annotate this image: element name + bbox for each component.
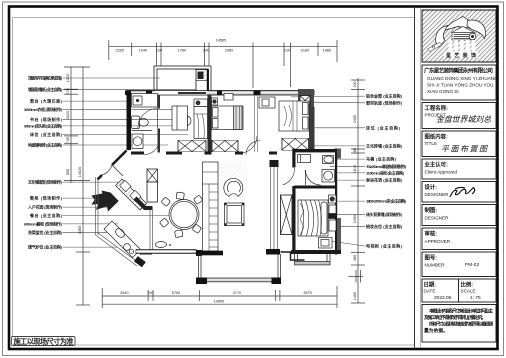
tall X cabinet — [281, 195, 293, 235]
svg-text:270: 270 — [66, 88, 70, 94]
bay hatched duct box — [196, 70, 209, 93]
svg-text:文化墙造型 (现场制作): 文化墙造型 (现场制作) — [28, 179, 63, 185]
svg-text:业主认可:: 业主认可: — [425, 161, 449, 169]
svg-text:洗菜盆位 (业主自购): 洗菜盆位 (业主自购) — [28, 229, 63, 235]
svg-text:5750: 5750 — [172, 291, 180, 295]
master bed — [298, 195, 337, 248]
sofa band — [203, 162, 219, 251]
svg-text:3365: 3365 — [78, 226, 82, 234]
dining table — [159, 192, 202, 237]
svg-text:14565: 14565 — [214, 299, 225, 303]
svg-text:广东星艺装饰集团永州有限公司: 广东星艺装饰集团永州有限公司 — [424, 67, 493, 75]
svg-text:1040: 1040 — [139, 49, 147, 53]
svg-text:GUANG DONG XING YI ZHUANG: GUANG DONG XING YI ZHUANG — [427, 76, 498, 81]
master wing west wall + door — [292, 149, 295, 196]
svg-text:餐台 (业主自购): 餐台 (业主自购) — [29, 212, 63, 218]
title block left boundary — [414, 8, 416, 348]
svg-text:马桶 (业主自购): 马桶 (业主自购) — [366, 156, 397, 162]
rug light hatch in hall — [203, 162, 247, 196]
bathroom1 — [132, 94, 158, 149]
logo box — [422, 10, 496, 62]
svg-text:2450: 2450 — [353, 215, 357, 223]
svg-text:1100mm浴柜 (业主自购): 1100mm浴柜 (业主自购) — [366, 169, 405, 175]
svg-text:图纸内容:: 图纸内容: — [425, 133, 449, 141]
master bay window — [295, 254, 331, 265]
client box — [422, 159, 496, 179]
svg-text:地面铺地砖 (业主自购): 地面铺地砖 (业主自购) — [28, 142, 63, 148]
master bottom wall — [291, 250, 341, 254]
svg-text:制图:: 制图: — [425, 206, 438, 214]
bed1/bed2 divider wall — [208, 95, 212, 140]
svg-text:1800x2000mm床 (业主自购): 1800x2000mm床 (业主自购) — [366, 198, 407, 204]
svg-text:TITLE: TITLE — [425, 141, 438, 146]
svg-text:2960: 2960 — [225, 49, 233, 53]
svg-text:量为依据。: 量为依据。 — [424, 327, 448, 334]
svg-text:入户花园 (现场制作): 入户花园 (现场制作) — [28, 204, 63, 210]
svg-text:2450: 2450 — [353, 115, 357, 123]
kitchen window junction block — [140, 250, 152, 255]
svg-text:DATE: DATE — [424, 289, 436, 294]
svg-text:窗台 (大理石面): 窗台 (大理石面) — [30, 98, 63, 104]
svg-text:及施工单位不得修改,不得转让,仿冒必究。: 及施工单位不得修改,不得转让,仿冒必究。 — [424, 314, 486, 321]
svg-text:本图设计内容及尺寸未经设计单位许可,业主: 本图设计内容及尺寸未经设计单位许可,业主 — [429, 308, 493, 315]
left exterior wall — [127, 92, 132, 150]
drawer box — [422, 205, 496, 226]
entry diagonal wall D1 + door — [98, 151, 127, 180]
svg-text:240: 240 — [147, 291, 153, 295]
date / scale box — [422, 279, 496, 302]
svg-text:所有尺寸以现场实际放线为准,不得以图纸测: 所有尺寸以现场实际放线为准,不得以图纸测 — [429, 321, 493, 328]
title box — [422, 131, 496, 157]
svg-text:审核:: 审核: — [425, 230, 438, 238]
living west window band — [271, 167, 278, 249]
fridge w/ X — [147, 169, 158, 202]
step box right of bay — [281, 252, 305, 260]
small dim right bottom — [349, 270, 364, 283]
bed2/bed3 light wall — [255, 95, 258, 152]
kitchen east wall thin — [150, 210, 153, 251]
top dimension line — [109, 40, 337, 88]
bed3 (horizontal, headboard right) — [279, 101, 309, 131]
svg-text:书台 (现场制作): 书台 (现场制作) — [30, 116, 63, 122]
top wall band with window — [125, 91, 314, 96]
svg-text:14565: 14565 — [216, 39, 227, 43]
svg-text:700x700mm淋浴房 (现场制作): 700x700mm淋浴房 (现场制作) — [366, 163, 407, 169]
number box — [422, 252, 496, 277]
svg-text:14020: 14020 — [78, 167, 82, 178]
wall box AC — [224, 94, 233, 101]
svg-text:顶面吊平顶 (原白乳胶漆): 顶面吊平顶 (原白乳胶漆) — [28, 75, 63, 81]
bottom wall window left — [136, 242, 223, 257]
master bedroom right wall — [335, 149, 337, 255]
svg-text:电视柜 (业主自购): 电视柜 (业主自购) — [366, 243, 403, 249]
svg-text:淋浴花洒 (业主自购): 淋浴花洒 (业主自购) — [366, 177, 403, 183]
square table — [225, 203, 245, 226]
svg-text:480: 480 — [353, 255, 357, 261]
svg-text:555: 555 — [66, 169, 70, 175]
svg-text:Client Approved: Client Approved — [425, 170, 458, 175]
corner block w/ X column — [298, 89, 314, 107]
svg-text:梳妆台位 (业主自购): 梳妆台位 (业主自购) — [365, 223, 403, 229]
svg-text:900mm床头柜 (业主自购): 900mm床头柜 (业主自购) — [24, 122, 63, 128]
round fan chair — [224, 178, 243, 196]
svg-text:床位 (业主自购): 床位 (业主自购) — [30, 131, 63, 137]
svg-text:墙面贴墙纸 (业主自购): 墙面贴墙纸 (业主自购) — [28, 86, 63, 92]
svg-text:鞋柜 (现场制作): 鞋柜 (现场制作) — [30, 195, 63, 201]
svg-text:180: 180 — [353, 148, 357, 154]
svg-text:床位 (业主自购): 床位 (业主自购) — [366, 124, 401, 130]
left vertical dimension lines — [64, 67, 90, 305]
right wing exterior wall upper — [309, 107, 315, 152]
svg-text:2940: 2940 — [120, 291, 128, 295]
svg-text:窗帘轨道 (现场制作): 窗帘轨道 (现场制作) — [366, 99, 403, 105]
inner thin frame — [13, 18, 415, 346]
approver box — [422, 228, 496, 250]
company box — [422, 65, 498, 100]
svg-text:NUMBER: NUMBER — [425, 263, 446, 268]
svg-text:4770: 4770 — [233, 291, 241, 295]
project box — [422, 103, 496, 129]
svg-text:文化砖墙 (业主自购): 文化砖墙 (业主自购) — [366, 142, 403, 148]
svg-text:DESIGNER: DESIGNER — [425, 192, 450, 197]
svg-text:APPROVER: APPROVER — [425, 239, 451, 244]
svg-text:2022.06: 2022.06 — [434, 295, 452, 301]
bottom bay window — [199, 254, 281, 282]
bathroom2 — [295, 149, 338, 189]
svg-text:1: 75: 1: 75 — [470, 295, 481, 301]
svg-text:3000mm衣柜 (现场制作): 3000mm衣柜 (现场制作) — [24, 106, 63, 112]
bed2 (horizontal, headboard left) — [212, 98, 244, 130]
svg-text:600mm橱柜 (现场制作): 600mm橱柜 (现场制作) — [24, 220, 63, 226]
kitchen SW diagonal thin — [96, 233, 140, 266]
bed1 (vertical, headboard top) — [194, 99, 208, 139]
svg-text:煤气炉位 (业主自购): 煤气炉位 (业主自购) — [28, 244, 63, 250]
svg-text:图号:: 图号: — [425, 254, 438, 262]
left leader lines — [63, 78, 197, 247]
svg-text:SCALE: SCALE — [461, 289, 476, 294]
kitchen black corner wall — [134, 197, 153, 211]
kitchen lower counter — [104, 221, 141, 258]
svg-text:日期:: 日期: — [424, 281, 437, 289]
svg-text:XIAN GONG SI: XIAN GONG SI — [427, 89, 459, 94]
svg-text:PM-02: PM-02 — [465, 262, 479, 268]
kitchen left thin wall — [96, 177, 99, 235]
bedroom south wall with door openings — [131, 152, 277, 155]
svg-text:工程名称:: 工程名称: — [425, 104, 449, 112]
svg-text:1480: 1480 — [323, 49, 331, 53]
svg-text:DESIGNER: DESIGNER — [425, 216, 450, 221]
svg-text:745: 745 — [66, 137, 70, 143]
kitchen upper counter (shoe cabinet) — [116, 179, 147, 210]
svg-text:设计:: 设计: — [425, 183, 438, 191]
bedroom3 table — [259, 97, 275, 108]
svg-text:金盘世界城刘总: 金盘世界城刘总 — [436, 115, 491, 124]
entry arrow (points right) — [92, 191, 119, 212]
svg-text:床头背景墙 (现场制作): 床头背景墙 (现场制作) — [366, 211, 403, 217]
svg-text:平面布置图: 平面布置图 — [441, 145, 488, 154]
svg-text:240: 240 — [203, 49, 209, 53]
svg-text:铝合金窗 (业主自购): 铝合金窗 (业主自购) — [366, 93, 403, 99]
bedroom1 desk + chair — [172, 106, 191, 130]
bottom-left stamp — [12, 337, 76, 347]
notes box — [422, 305, 496, 343]
svg-text:2160: 2160 — [301, 49, 309, 53]
svg-text:1285: 1285 — [115, 49, 123, 53]
svg-text:施工以现场尺寸为准: 施工以现场尺寸为准 — [14, 337, 74, 346]
master west wall lower — [292, 195, 295, 254]
bottom dimension lines — [102, 286, 337, 308]
bathroom1 east wall + door — [138, 95, 160, 153]
door arcs into corridor — [144, 136, 260, 155]
wardrobes (X boxes) — [178, 139, 309, 152]
svg-text:120: 120 — [156, 49, 162, 53]
svg-text:3420: 3420 — [66, 111, 70, 119]
svg-text:SHI JI TUAN YONG ZHOU YOU: SHI JI TUAN YONG ZHOU YOU — [427, 83, 493, 88]
svg-text:3570: 3570 — [303, 291, 311, 295]
svg-text:1400: 1400 — [353, 292, 357, 300]
right leader lines — [291, 96, 365, 246]
svg-text:120: 120 — [284, 49, 290, 53]
right vertical dimension line — [351, 78, 365, 303]
top-left bay window — [154, 66, 211, 92]
svg-text:1780: 1780 — [178, 49, 186, 53]
svg-text:比例:: 比例: — [461, 281, 474, 289]
svg-text:100: 100 — [353, 81, 357, 87]
designer box — [422, 182, 496, 203]
